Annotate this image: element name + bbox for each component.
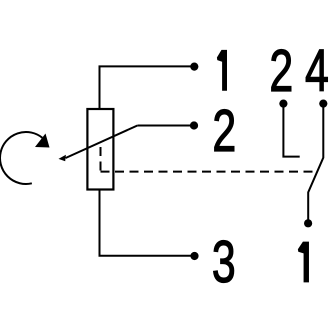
svg-text:4: 4 (305, 37, 329, 104)
svg-text:3: 3 (212, 228, 236, 295)
svg-text:2: 2 (212, 97, 236, 164)
svg-text:2: 2 (269, 37, 293, 104)
